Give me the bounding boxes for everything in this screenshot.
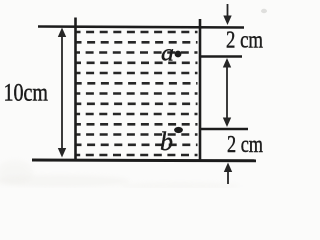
liquid dashes row 6 <box>77 82 198 85</box>
bottom-right up arrow to vessel bottom <box>224 163 232 185</box>
double arrow between level a and level b <box>223 58 231 127</box>
liquid dashes row 9 <box>77 113 198 116</box>
liquid dashes row 2 <box>77 41 198 44</box>
vessel right wall <box>199 19 202 161</box>
liquid dashes row 1 <box>77 31 198 34</box>
level line of point a <box>199 55 242 57</box>
scan smudge bottom <box>0 160 240 190</box>
liquid dashes row 12 <box>77 144 198 147</box>
liquid dashes row 11 <box>77 133 198 136</box>
liquid dashes row 5 <box>77 72 198 75</box>
liquid surface line <box>38 27 244 28</box>
level line of point b <box>199 128 248 130</box>
scan speck top right <box>261 9 267 13</box>
liquid dashes row 8 <box>77 103 198 106</box>
svg-text:2 cm: 2 cm <box>226 28 263 54</box>
liquid dashes row 10 <box>77 123 198 126</box>
svg-text:b: b <box>160 127 173 156</box>
liquid dashes row 4 <box>77 61 198 64</box>
10cm dimension arrow (left, double-headed) <box>58 28 66 158</box>
vessel left wall <box>74 18 77 162</box>
liquid dashes row 7 <box>77 92 198 95</box>
top-right down arrow to surface <box>223 4 231 25</box>
svg-text:10cm: 10cm <box>4 80 49 107</box>
point a dot <box>175 51 182 58</box>
svg-text:2 cm: 2 cm <box>227 132 263 158</box>
vessel bottom line <box>32 159 256 163</box>
svg-text:a: a <box>161 41 174 67</box>
liquid dashes row 3 <box>77 51 198 54</box>
liquid dashes row 13 <box>77 154 198 157</box>
point b dot <box>174 127 183 133</box>
